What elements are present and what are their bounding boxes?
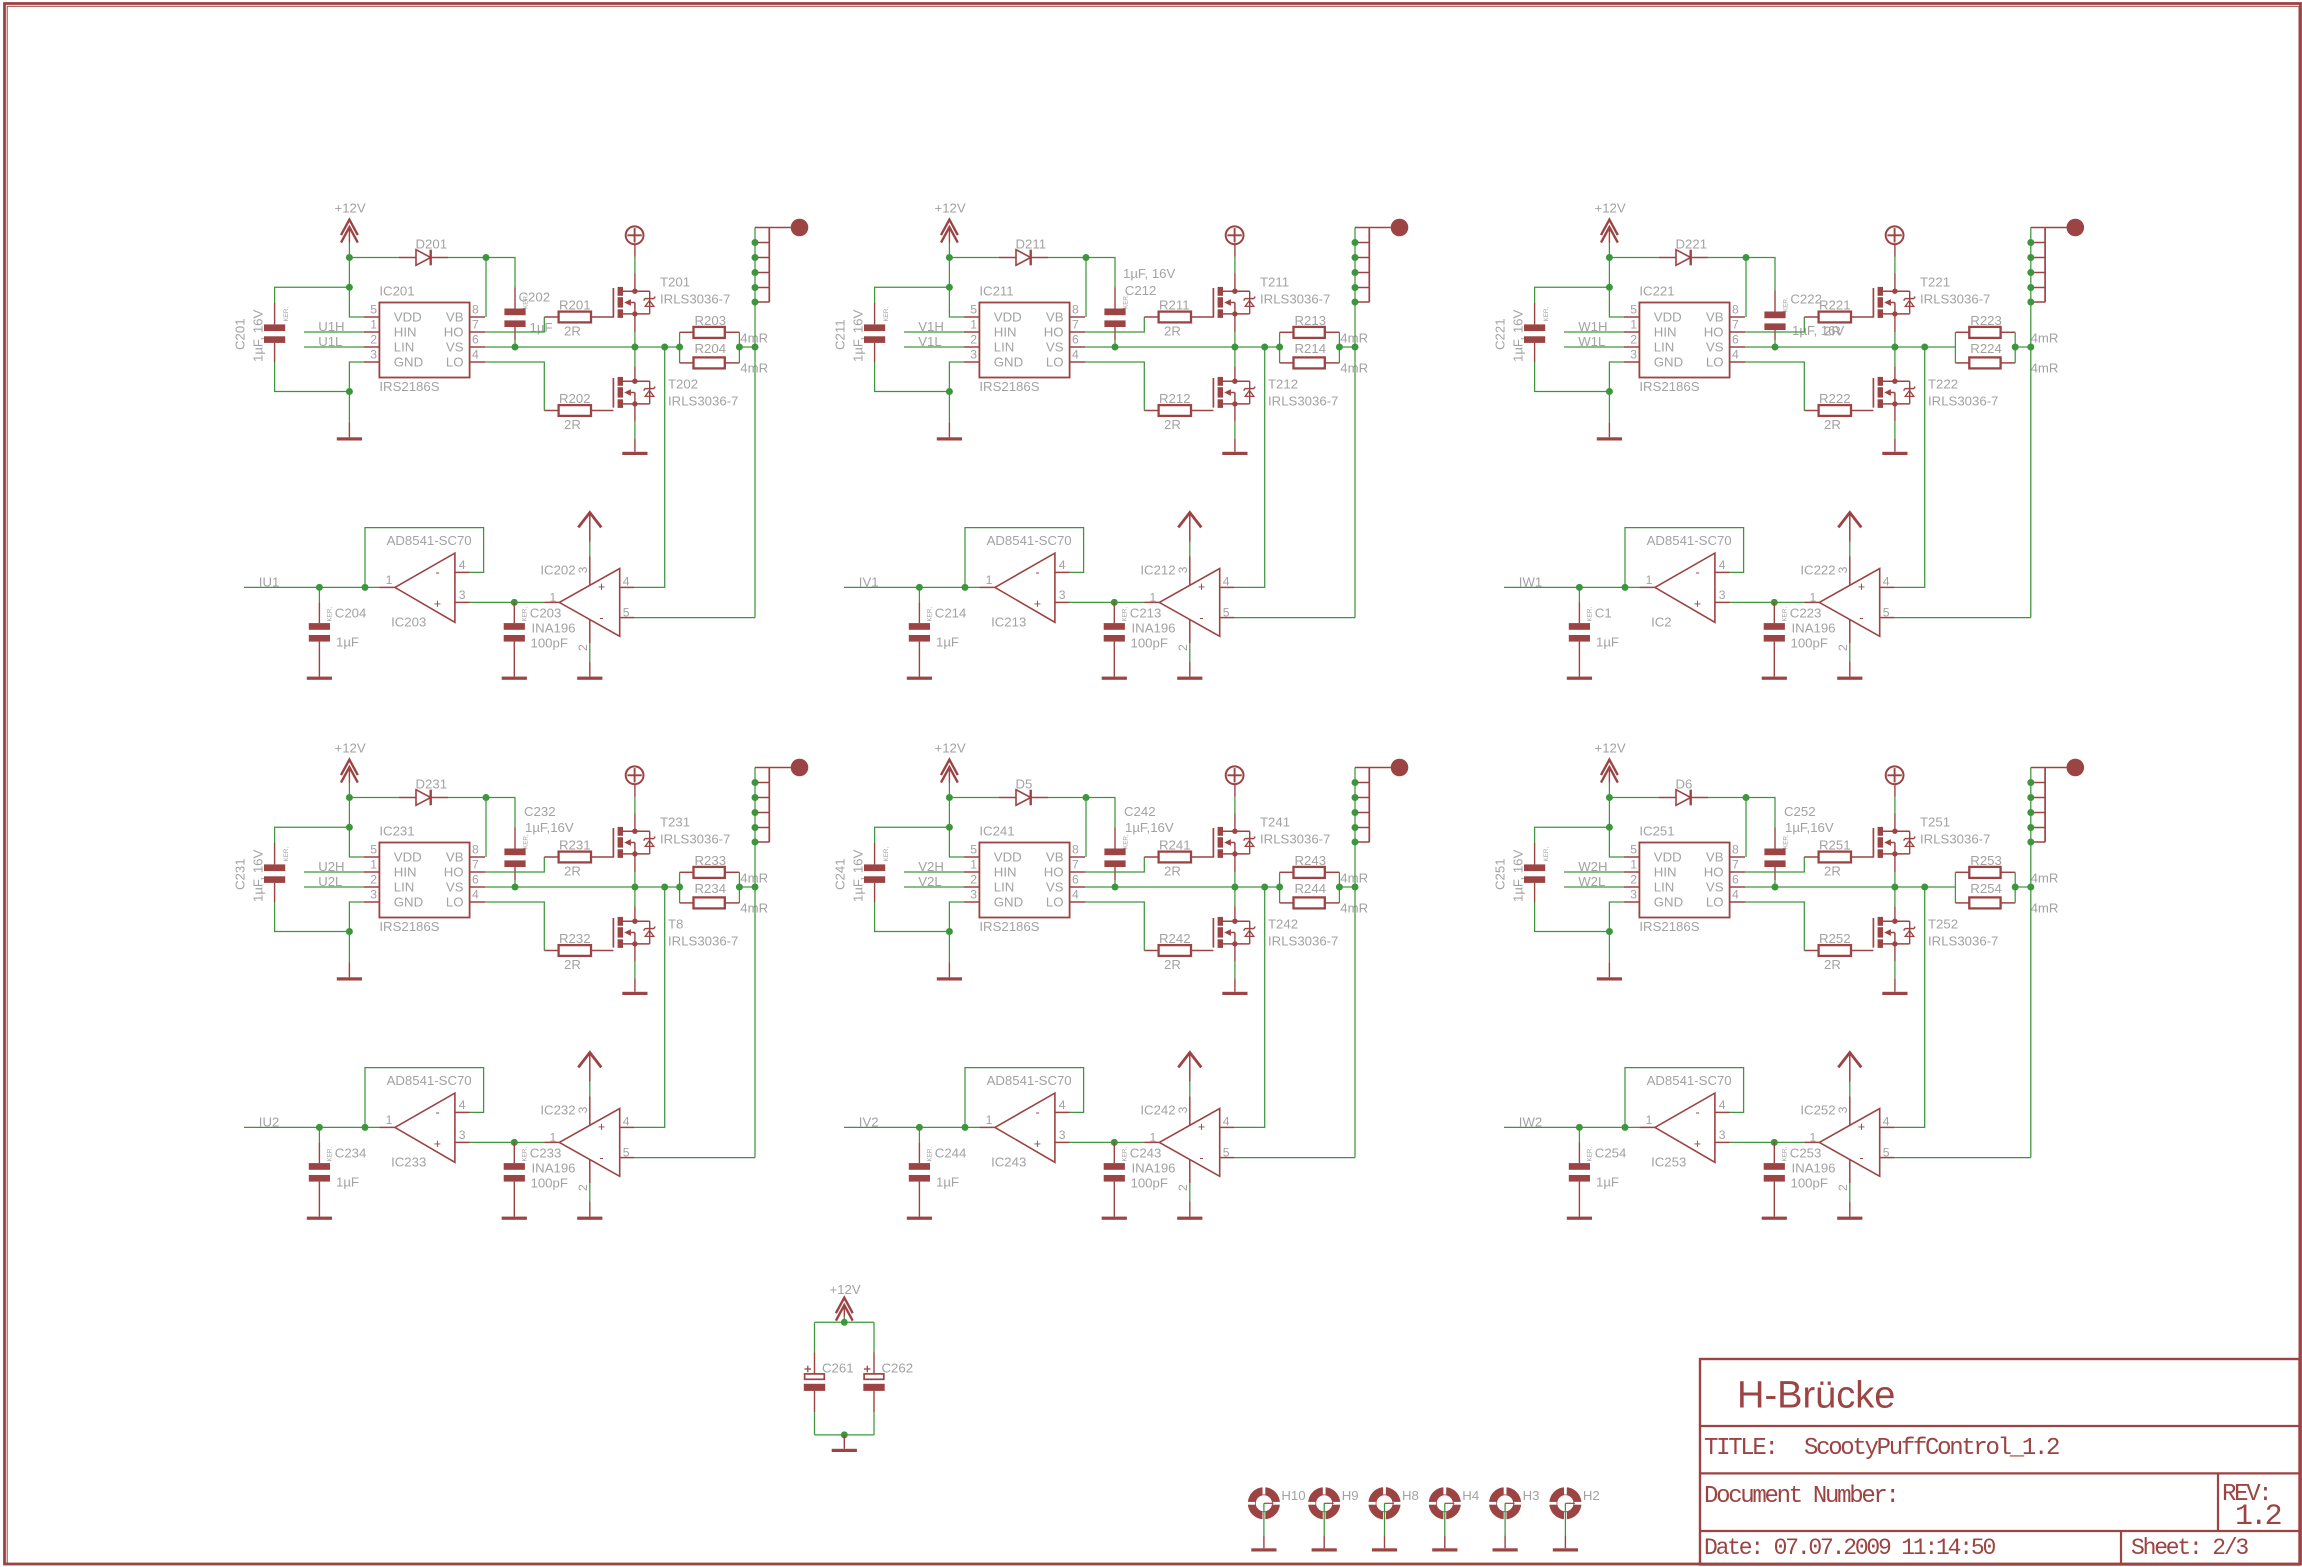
wire output bus [754, 228, 756, 618]
svg-text:KER,: KER, [1123, 834, 1130, 849]
svg-text:GND: GND [394, 895, 423, 910]
svg-text:VS: VS [446, 340, 464, 355]
current sense amp IC252 INA196 [1800, 1097, 1894, 1192]
node input-cap junction [1576, 584, 1583, 591]
node pad junction [752, 299, 759, 306]
ground [1762, 677, 1787, 680]
svg-text:C204: C204 [335, 605, 367, 620]
svg-text:+: + [1034, 597, 1041, 611]
svg-text:T222: T222 [1928, 377, 1958, 392]
svg-text:T8: T8 [668, 917, 683, 932]
svg-text:2R: 2R [564, 323, 581, 338]
svg-text:6: 6 [472, 333, 479, 347]
diode D211 [999, 237, 1048, 266]
wire source to VS net [1894, 854, 1896, 872]
node VS-sense junction [1261, 884, 1268, 891]
wire VB node to pin 8 riser [485, 798, 487, 858]
svg-text:100pF: 100pF [1131, 1176, 1168, 1191]
wire op-amp out to INA in [470, 601, 545, 603]
svg-text:1: 1 [1646, 573, 1653, 587]
svg-text:4: 4 [623, 575, 630, 589]
diode D221 [1659, 237, 1708, 266]
svg-text:H3: H3 [1523, 1488, 1540, 1503]
svg-text:-: - [1036, 566, 1040, 580]
node pad junction [2027, 299, 2034, 306]
node pad junction [2027, 239, 2034, 246]
wire VDD to pin 5 [1608, 258, 1610, 288]
ground [1493, 1548, 1518, 1551]
svg-text:IRLS3036-7: IRLS3036-7 [668, 933, 738, 948]
node VDD junction [946, 824, 953, 831]
capacitor C213 100pF [1104, 602, 1176, 676]
wire VB node to bootstrap cap [486, 258, 515, 288]
wire LO pin 4 to gate resistor [1745, 902, 1804, 951]
resistor R202 2R [544, 391, 613, 432]
net U1L [304, 334, 364, 349]
ground [1567, 677, 1592, 680]
svg-text:1µF: 1µF [336, 635, 359, 650]
svg-text:2: 2 [970, 333, 977, 347]
node input-cap junction [1576, 1124, 1583, 1131]
wire diode cathode to bootstrap node [1048, 797, 1086, 799]
node pad junction [752, 839, 759, 846]
svg-text:HIN: HIN [1654, 325, 1677, 340]
resistor R204 4mR [680, 341, 769, 375]
node shunt-left junction [1276, 884, 1283, 891]
resistor R242 2R [1144, 931, 1213, 972]
svg-text:KER,: KER, [1783, 834, 1790, 849]
svg-text:2: 2 [1176, 1184, 1190, 1191]
svg-text:IRLS3036-7: IRLS3036-7 [660, 291, 730, 306]
node GND junction [1606, 388, 1613, 395]
node VS-T junction [1891, 344, 1898, 351]
wire GND node to ground [1608, 392, 1610, 423]
svg-text:+12V: +12V [1595, 201, 1626, 216]
ground [622, 992, 647, 995]
svg-text:C242: C242 [1124, 804, 1156, 819]
wire output bus [1354, 228, 1356, 618]
svg-text:T231: T231 [660, 815, 690, 830]
svg-text:GND: GND [1654, 355, 1683, 370]
svg-text:R212: R212 [1159, 391, 1191, 406]
svg-text:+: + [598, 580, 605, 594]
svg-text:+: + [1694, 1137, 1701, 1151]
svg-text:6: 6 [1732, 873, 1739, 887]
svg-text:HIN: HIN [394, 325, 417, 340]
svg-text:3: 3 [1836, 566, 1850, 573]
transistor T222 IRLS3036-7 [1873, 377, 1998, 409]
svg-text:H2: H2 [1583, 1488, 1600, 1503]
svg-text:4: 4 [459, 1098, 466, 1112]
svg-text:8: 8 [1732, 303, 1739, 317]
wire GND node to ground [948, 932, 950, 963]
resistor R233 4mR [680, 853, 769, 887]
wire INA pin 5 to bus [1234, 1157, 1355, 1159]
resistor R243 4mR [1280, 853, 1369, 887]
wire pin 2 to ground [1189, 643, 1191, 662]
svg-text:100pF: 100pF [531, 636, 568, 651]
wire bootstrap cap to VS [1774, 340, 1776, 347]
node pad junction [1352, 839, 1359, 846]
svg-text:+12V: +12V [335, 201, 366, 216]
svg-text:LO: LO [1706, 895, 1724, 910]
svg-text:-: - [436, 1106, 440, 1120]
svg-text:IC213: IC213 [991, 614, 1026, 629]
wire bootstrap cap to VS [514, 340, 516, 347]
resistor R254 4mR [1955, 881, 2058, 915]
svg-text:1: 1 [386, 573, 393, 587]
node VDD junction [346, 824, 353, 831]
node +12V junction [346, 794, 353, 801]
wire to ground [843, 1435, 845, 1449]
svg-text:4: 4 [1719, 1098, 1726, 1112]
wire pin 2 to ground [1849, 643, 1851, 662]
ground [937, 977, 962, 980]
wire +12V rail to diode [349, 797, 399, 799]
svg-text:GND: GND [994, 355, 1023, 370]
wire hole to ground [1384, 1503, 1386, 1535]
svg-text:8: 8 [1072, 843, 1079, 857]
ground [1432, 1548, 1457, 1551]
wire +12V to node [1608, 783, 1610, 798]
wire shunt to bus [1339, 346, 1355, 348]
node input-cap junction [916, 584, 923, 591]
wire GND node to ground [348, 392, 350, 423]
svg-text:+12V: +12V [335, 741, 366, 756]
svg-text:2R: 2R [1824, 863, 1841, 878]
transistor T241 IRLS3036-7 [1213, 815, 1330, 858]
wire feedback loop [965, 1068, 1084, 1128]
svg-text:C243: C243 [1130, 1145, 1162, 1160]
svg-text:2: 2 [1836, 644, 1850, 651]
svg-text:4mR: 4mR [740, 900, 768, 915]
svg-text:1µF: 1µF [936, 635, 959, 650]
node VS cap junction [1772, 344, 1779, 351]
svg-text:4: 4 [1059, 1098, 1066, 1112]
svg-text:2: 2 [370, 333, 377, 347]
svg-text:AD8541-SC70: AD8541-SC70 [987, 533, 1072, 548]
wire HO pin 7 to gate resistor [485, 317, 544, 332]
svg-text:IC201: IC201 [379, 284, 414, 299]
svg-text:3: 3 [576, 566, 590, 573]
svg-text:IC233: IC233 [391, 1154, 426, 1169]
node pad junction [2027, 839, 2034, 846]
resistor R252 2R [1804, 931, 1873, 972]
wire hole to ground [1564, 1503, 1566, 1535]
svg-text:-: - [1199, 1151, 1203, 1165]
svg-text:IRLS3036-7: IRLS3036-7 [1920, 291, 1990, 306]
node pad junction [752, 269, 759, 276]
wire T drain to VS [1234, 367, 1236, 382]
supply +BATT terminal symbol [626, 226, 644, 244]
wire hole to ground [1263, 1503, 1265, 1535]
svg-text:3: 3 [459, 1128, 466, 1142]
pad terminal [1391, 219, 1409, 237]
node VB junction [483, 794, 490, 801]
node GND junction [946, 928, 953, 935]
svg-text:KER,: KER, [1543, 307, 1550, 322]
wire +12V to node [1608, 243, 1610, 258]
transistor T252 IRLS3036-7 [1873, 917, 1998, 949]
wire LO pin 4 to gate resistor [485, 362, 544, 411]
svg-text:R252: R252 [1819, 931, 1851, 946]
svg-text:5: 5 [370, 303, 377, 317]
svg-text:1: 1 [970, 858, 977, 872]
net W1L [1564, 334, 1624, 349]
svg-text:1: 1 [986, 573, 993, 587]
wire VS net [1745, 346, 1955, 348]
svg-text:2: 2 [970, 873, 977, 887]
svg-text:T212: T212 [1268, 377, 1298, 392]
svg-text:IRLS3036-7: IRLS3036-7 [1928, 393, 1998, 408]
svg-text:100pF: 100pF [1791, 1176, 1828, 1191]
node shunt-right junction [736, 884, 743, 891]
svg-text:KER,: KER, [283, 307, 290, 322]
wire C to +12V rail [875, 287, 950, 303]
net V1L [904, 334, 964, 349]
svg-text:3: 3 [370, 888, 377, 902]
ground [337, 977, 362, 980]
svg-text:100pF: 100pF [1131, 636, 1168, 651]
ground [1312, 1548, 1337, 1551]
diode D231 [399, 777, 448, 806]
net V2H [904, 859, 964, 874]
svg-text:1µF, 16V: 1µF, 16V [851, 849, 866, 902]
node bulk bottom junction [841, 1431, 848, 1438]
wire INA pin 4 sense [634, 347, 664, 587]
svg-text:T202: T202 [668, 377, 698, 392]
svg-text:C212: C212 [1125, 283, 1157, 298]
mounting hole H8 [1368, 1486, 1419, 1520]
wire T drain to VS [1894, 367, 1896, 382]
wire INA pin 4 sense [1234, 347, 1264, 587]
net IU1 input [244, 574, 379, 589]
svg-text:1µF: 1µF [1596, 635, 1619, 650]
node GND junction [346, 388, 353, 395]
svg-text:C233: C233 [530, 1145, 562, 1160]
wire source to VS net [634, 854, 636, 872]
svg-text:8: 8 [1732, 843, 1739, 857]
svg-text:-: - [436, 566, 440, 580]
capacitor C241 1uF 16V [833, 843, 891, 902]
svg-text:Sheet: 2/3: Sheet: 2/3 [2131, 1535, 2248, 1561]
wire INA pin 4 sense [1894, 347, 1924, 587]
connector pad ladder [1355, 768, 1391, 843]
svg-text:2R: 2R [564, 957, 581, 972]
svg-text:-: - [599, 1151, 603, 1165]
power +12V op-amp supply [578, 513, 601, 542]
svg-text:KER,: KER, [283, 847, 290, 862]
svg-text:LO: LO [446, 355, 464, 370]
wire LO pin 4 to gate resistor [1085, 362, 1144, 411]
net IV1 input [844, 574, 979, 589]
wire pin 2 to ground [1189, 1183, 1191, 1202]
svg-text:1: 1 [370, 858, 377, 872]
svg-text:100pF: 100pF [1791, 636, 1828, 651]
node input-cap junction [316, 584, 323, 591]
svg-text:+12V: +12V [1595, 741, 1626, 756]
svg-text:IRLS3036-7: IRLS3036-7 [1260, 831, 1330, 846]
svg-text:1: 1 [1630, 318, 1637, 332]
svg-text:1µF,16V: 1µF,16V [1125, 820, 1174, 835]
wire VB node to bootstrap cap [1086, 798, 1115, 828]
wire VDD to pin 5 [948, 258, 950, 288]
node VS cap junction [512, 884, 519, 891]
node feedback junction [1622, 584, 1629, 591]
svg-text:KER,: KER, [326, 607, 333, 622]
svg-text:LO: LO [1706, 355, 1724, 370]
wire HO pin 7 to gate resistor [1745, 317, 1804, 332]
wire T source to ground [634, 944, 636, 962]
op-amp IC213 AD8541-SC70 [979, 533, 1071, 629]
wire HO pin 7 to gate resistor [1745, 857, 1804, 872]
resistor R212 2R [1144, 391, 1213, 432]
capacitor C212 [1104, 266, 1175, 340]
wire drain to +BATT [1234, 814, 1236, 832]
wire C bottom to GND net [1535, 902, 1610, 932]
capacitor C203 100pF [504, 602, 576, 676]
node VB junction [1083, 794, 1090, 801]
svg-text:3: 3 [1719, 588, 1726, 602]
svg-text:2: 2 [1630, 333, 1637, 347]
wire supply to pin 3 [1849, 542, 1851, 557]
wire bulk top rail [815, 1321, 875, 1323]
svg-text:D201: D201 [416, 237, 448, 252]
svg-text:1: 1 [550, 590, 557, 604]
svg-text:3: 3 [1059, 1128, 1066, 1142]
svg-text:1µF, 16V: 1µF, 16V [1511, 849, 1526, 902]
svg-text:R233: R233 [695, 853, 727, 868]
wire HO pin 7 to gate resistor [485, 857, 544, 872]
svg-text:4: 4 [1732, 348, 1739, 362]
svg-text:+12V: +12V [830, 1282, 861, 1297]
svg-text:3: 3 [1630, 348, 1637, 362]
svg-text:INA196: INA196 [1792, 621, 1836, 636]
node filter junction [1111, 1139, 1118, 1146]
svg-text:IRLS3036-7: IRLS3036-7 [1928, 933, 1998, 948]
power +12V symbol [1595, 741, 1626, 783]
wire LO pin 4 to gate resistor [1745, 362, 1804, 411]
node pad junction [1352, 809, 1359, 816]
svg-text:Date: 07.07.2009 11:14:50: Date: 07.07.2009 11:14:50 [1704, 1535, 1995, 1561]
wire VDD to pin 5 [348, 258, 350, 288]
node VS cap junction [1112, 884, 1119, 891]
svg-text:C222: C222 [1790, 292, 1822, 307]
svg-text:VS: VS [1706, 340, 1724, 355]
svg-text:4: 4 [1883, 1115, 1890, 1129]
node pad junction [752, 809, 759, 816]
svg-text:1µF,16V: 1µF,16V [1785, 820, 1834, 835]
svg-text:2: 2 [1176, 644, 1190, 651]
op-amp IC233 AD8541-SC70 [379, 1073, 471, 1169]
power +12V symbol [935, 741, 966, 783]
svg-text:-: - [1199, 611, 1203, 625]
svg-text:C254: C254 [1595, 1145, 1627, 1160]
svg-text:3: 3 [970, 888, 977, 902]
transistor T212 IRLS3036-7 [1213, 377, 1338, 409]
svg-text:1µF, 16V: 1µF, 16V [251, 849, 266, 902]
svg-text:4: 4 [472, 348, 479, 362]
svg-text:KER,: KER, [326, 1147, 333, 1162]
wire VB node to bootstrap cap [486, 798, 515, 828]
svg-text:2R: 2R [564, 863, 581, 878]
node shunt-right junction [1336, 344, 1343, 351]
svg-text:KER,: KER, [523, 834, 530, 849]
wire supply to pin 3 [589, 1082, 591, 1097]
op-amp IC243 AD8541-SC70 [979, 1073, 1071, 1169]
svg-text:2R: 2R [1164, 323, 1181, 338]
wire hole to ground [1504, 1503, 1506, 1535]
connector pad ladder [1355, 228, 1391, 303]
svg-text:IC211: IC211 [979, 284, 1013, 299]
pad terminal [2067, 219, 2085, 237]
svg-text:INA196: INA196 [1792, 1161, 1836, 1176]
ground [1553, 1548, 1578, 1551]
svg-text:7: 7 [472, 318, 479, 332]
resistor R224 4mR [1955, 341, 2058, 375]
ground [577, 1217, 602, 1220]
svg-text:T251: T251 [1920, 815, 1950, 830]
net IU2 input [244, 1114, 379, 1129]
diode D6 [1659, 777, 1708, 806]
wire feedback loop [965, 528, 1084, 588]
node shunt-right junction [2012, 344, 2019, 351]
node pad junction [2027, 779, 2034, 786]
wire drain to +BATT [634, 814, 636, 832]
ground [502, 1217, 527, 1220]
ground [1177, 1217, 1202, 1220]
wire VDD to pin 5 [348, 798, 350, 828]
transistor T251 IRLS3036-7 [1873, 815, 1990, 858]
svg-text:IC202: IC202 [540, 562, 575, 577]
ground [307, 1217, 332, 1220]
wire T source to ground [1234, 404, 1236, 422]
capacitor C243 100pF [1104, 1142, 1176, 1216]
svg-text:VB: VB [1046, 850, 1064, 865]
svg-text:2R: 2R [1824, 957, 1841, 972]
svg-text:KER,: KER, [926, 1147, 933, 1162]
node VDD junction [1606, 284, 1613, 291]
wire C bottom to GND net [875, 902, 950, 932]
svg-text:4: 4 [623, 1115, 630, 1129]
node VS-T junction [1231, 884, 1238, 891]
net IW2 input [1504, 1114, 1639, 1129]
wire op-amp out to INA in [1070, 1141, 1145, 1143]
capacitor C1 1uF [1569, 587, 1619, 676]
svg-text:R211: R211 [1159, 298, 1190, 313]
wire GND node to ground [948, 392, 950, 423]
node VS-sense junction [661, 344, 668, 351]
capacitor C254 1uF [1569, 1127, 1627, 1216]
node feedback junction [962, 584, 969, 591]
svg-text:+: + [1198, 580, 1205, 594]
wire T source to ground [1234, 944, 1236, 962]
capacitor C242 [1104, 804, 1173, 880]
svg-text:+: + [434, 597, 441, 611]
capacitor C233 100pF [504, 1142, 576, 1216]
svg-text:R204: R204 [695, 341, 727, 356]
svg-text:LIN: LIN [994, 880, 1015, 895]
capacitor C211 1uF 16V [833, 303, 891, 362]
svg-text:4: 4 [1719, 558, 1726, 572]
svg-text:VDD: VDD [994, 310, 1022, 325]
node VDD junction [946, 284, 953, 291]
svg-text:T201: T201 [660, 275, 690, 290]
svg-text:D5: D5 [1016, 777, 1033, 792]
node pad junction [752, 794, 759, 801]
node shunt-right junction [736, 344, 743, 351]
node +12V junction [1606, 254, 1613, 261]
